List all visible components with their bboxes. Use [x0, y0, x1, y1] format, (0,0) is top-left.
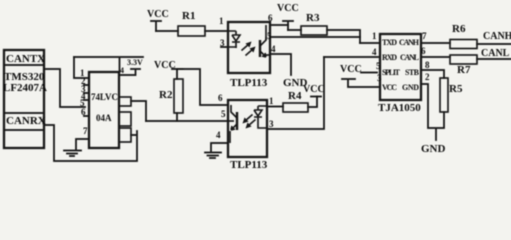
- svg-text:CANL: CANL: [400, 53, 419, 62]
- svg-text:R3: R3: [306, 12, 320, 24]
- transceiver U5 TJA1050 box: [380, 34, 421, 100]
- U3 pin 4 wire to GND: [270, 54, 291, 75]
- svg-text:GND: GND: [421, 143, 446, 155]
- svg-text:CANH: CANH: [483, 31, 511, 42]
- U3 phototransistor: [260, 25, 270, 57]
- VCC stub to U5 pin3: [342, 79, 380, 87]
- svg-text:74LVC: 74LVC: [91, 92, 118, 102]
- U3 LED: [228, 31, 240, 48]
- wire R6 out: [477, 43, 511, 45]
- svg-text:CANTX: CANTX: [6, 53, 45, 65]
- svg-text:TXD: TXD: [382, 38, 397, 47]
- svg-text:6: 6: [421, 46, 426, 56]
- svg-text:1: 1: [269, 96, 274, 106]
- 3.3V stub: [131, 69, 140, 75]
- svg-text:4: 4: [216, 130, 221, 140]
- svg-text:TLP113: TLP113: [230, 159, 268, 169]
- svg-text:7: 7: [422, 31, 427, 41]
- svg-text:VCC: VCC: [277, 3, 299, 14]
- inverter U2 74LVC04A box: [89, 72, 119, 148]
- U1 separator below CANRX: [4, 129, 44, 131]
- U4 pin 3 wire to RXD: [267, 57, 324, 129]
- svg-text:VCC: VCC: [303, 84, 325, 95]
- wire CANRX to bottom rail: [44, 125, 137, 161]
- U4 pin 1 stub: [267, 106, 283, 108]
- U1 separator above CANRX: [4, 112, 44, 114]
- U4 phototransistor: [228, 105, 237, 143]
- resistor R3 wire: [288, 30, 360, 43]
- wire CANL to R7: [421, 56, 450, 58]
- resistor R3: [301, 26, 327, 35]
- svg-text:3: 3: [377, 73, 382, 83]
- wire tabA to mid rail: [131, 101, 146, 121]
- U3 pin 6 wire to VCC: [270, 25, 288, 30]
- svg-text:CANL: CANL: [481, 48, 510, 59]
- U1 separator under CANTX: [4, 64, 44, 66]
- svg-text:RXD: RXD: [382, 53, 397, 62]
- svg-text:CANH: CANH: [399, 38, 420, 47]
- svg-text:TLP113: TLP113: [230, 77, 268, 89]
- U2 pin 4 stub: [84, 99, 89, 101]
- svg-text:R2: R2: [159, 89, 173, 101]
- svg-text:2: 2: [425, 72, 430, 82]
- svg-text:4: 4: [271, 44, 276, 54]
- resistor R5: [440, 78, 448, 112]
- U2 pin 7 stub to ground: [76, 139, 89, 150]
- svg-text:7: 7: [83, 126, 88, 136]
- U2 tab C: [119, 128, 131, 142]
- U2 output tab A: [119, 97, 131, 106]
- U4 pin 4 stub to ground: [211, 143, 228, 152]
- svg-text:5: 5: [221, 109, 226, 119]
- svg-text:8: 8: [425, 60, 430, 70]
- svg-text:4: 4: [120, 66, 124, 75]
- svg-text:3.3V: 3.3V: [127, 58, 143, 67]
- resistor R2: [174, 79, 183, 113]
- resistor R4: [283, 103, 308, 112]
- VCC T stub R1: [151, 21, 161, 31]
- wire VCC to opto pin6: [177, 69, 228, 105]
- mid rail to opto pin5: [146, 120, 228, 122]
- svg-text:CANRX: CANRX: [6, 115, 46, 127]
- U2 tab B: [119, 112, 131, 126]
- svg-text:VCC: VCC: [382, 83, 397, 92]
- optocoupler U4 TLP113 box (bottom): [228, 100, 267, 157]
- wire R4 to VCC: [308, 97, 317, 108]
- wire to TJA1050 TXD: [360, 42, 380, 44]
- svg-text:04A: 04A: [96, 113, 112, 123]
- svg-text:GND: GND: [402, 83, 419, 92]
- U3 light arrows: [242, 42, 256, 56]
- U2 pin 2 stub: [84, 84, 89, 86]
- svg-text:3: 3: [220, 38, 225, 48]
- 3.3V rail over U2: [74, 57, 143, 75]
- svg-text:R5: R5: [449, 83, 463, 95]
- svg-text:TJA1050: TJA1050: [378, 102, 421, 114]
- wire STB to R5: [421, 70, 444, 78]
- U4 light arrows: [243, 115, 256, 129]
- wire CANH to R6: [421, 42, 450, 44]
- svg-text:VCC: VCC: [340, 64, 362, 75]
- optocoupler U3 TLP113 box (top): [228, 22, 270, 73]
- svg-text:SPLIT: SPLIT: [382, 68, 401, 77]
- svg-text:4: 4: [372, 47, 377, 57]
- U2 pin 3 stub: [84, 92, 89, 94]
- ground under U2: [64, 151, 81, 157]
- svg-text:3: 3: [269, 119, 274, 129]
- R2 bottom stub: [176, 113, 178, 121]
- svg-text:5: 5: [376, 61, 381, 71]
- wire CANTX to U2 pin5: [44, 69, 85, 107]
- svg-text:R7: R7: [457, 64, 471, 76]
- resistor R6: [450, 40, 477, 49]
- VCC T stub U3: [283, 21, 293, 25]
- VCC T stub R4: [311, 96, 321, 98]
- wire VCC to R1: [156, 30, 178, 32]
- ground under U4: [205, 153, 221, 159]
- svg-text:R4: R4: [288, 90, 302, 102]
- svg-text:6: 6: [268, 13, 273, 23]
- wire R7 out: [477, 58, 511, 60]
- svg-text:6: 6: [81, 107, 86, 117]
- wire GND pin2: [421, 84, 444, 140]
- wire R1 to opto U3 pin1: [205, 30, 228, 32]
- svg-text:5: 5: [267, 31, 272, 41]
- U3 pin 5 wire: [270, 36, 360, 38]
- U5 pin 5 stub: [361, 72, 377, 74]
- U4 LED: [254, 106, 267, 128]
- U2 pin 1 wire from 3.3V rail: [74, 57, 89, 78]
- wire RXD: [324, 56, 380, 58]
- svg-text:R6: R6: [452, 23, 466, 35]
- svg-text:1: 1: [372, 31, 377, 41]
- svg-text:LF2407A: LF2407A: [3, 82, 47, 94]
- DSP U1 TMS320LF2407A box: [4, 50, 44, 148]
- resistor R1: [178, 26, 205, 36]
- svg-text:STB: STB: [405, 68, 420, 77]
- svg-text:R1: R1: [182, 10, 195, 22]
- svg-text:1: 1: [219, 16, 224, 26]
- svg-text:VCC: VCC: [147, 9, 169, 20]
- resistor R7: [450, 55, 477, 64]
- U2 pin 6 stub: [84, 115, 89, 117]
- VCC T stub: [172, 69, 183, 79]
- svg-text:6: 6: [218, 93, 223, 103]
- U3 pin 3 stub: [221, 46, 228, 48]
